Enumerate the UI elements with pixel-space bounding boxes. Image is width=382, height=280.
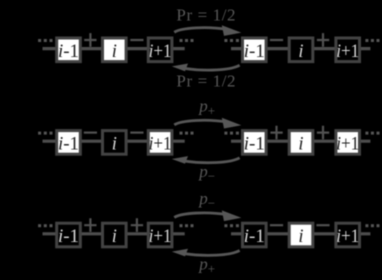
- svg-text:i+1: i+1: [149, 42, 172, 62]
- svg-text:i-1: i-1: [58, 227, 79, 247]
- svg-text:i: i: [112, 227, 117, 247]
- svg-text:Pr = 1/2: Pr = 1/2: [176, 71, 236, 90]
- svg-text:i-1: i-1: [58, 135, 79, 155]
- svg-text:i+1: i+1: [149, 135, 172, 155]
- svg-text:i+1: i+1: [336, 227, 359, 247]
- svg-text:i-1: i-1: [244, 135, 265, 155]
- svg-text:Pr = 1/2: Pr = 1/2: [176, 5, 236, 24]
- svg-text:i-1: i-1: [244, 42, 265, 62]
- svg-text:i: i: [298, 42, 303, 62]
- svg-text:i: i: [298, 135, 303, 155]
- svg-text:i+1: i+1: [336, 42, 359, 62]
- svg-text:i-1: i-1: [244, 227, 265, 247]
- svg-text:i: i: [112, 42, 117, 62]
- svg-text:i: i: [112, 135, 117, 155]
- svg-text:i: i: [298, 227, 303, 247]
- svg-text:i-1: i-1: [58, 42, 79, 62]
- svg-text:i+1: i+1: [149, 227, 172, 247]
- svg-text:i+1: i+1: [336, 135, 359, 155]
